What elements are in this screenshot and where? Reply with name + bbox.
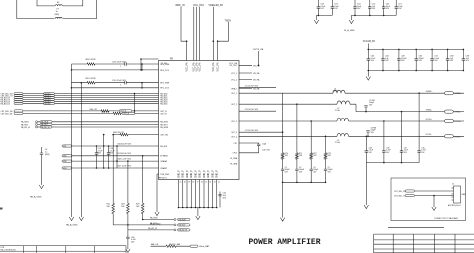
svg-text:MICRO_BAT: MICRO_BAT xyxy=(169,243,181,246)
svg-text:WRF_IN: WRF_IN xyxy=(175,4,184,7)
svg-text:C50 47uF 50V: C50 47uF 50V xyxy=(112,61,127,63)
svg-text:R60 OR: R60 OR xyxy=(90,109,98,111)
svg-text:VB_PA: VB_PA xyxy=(253,78,260,81)
svg-text:GPANA: GPANA xyxy=(160,160,167,163)
svg-text:PA_A_GND: PA_A_GND xyxy=(66,224,78,227)
svg-text:16: 16 xyxy=(201,182,203,184)
svg-text:GND_P: GND_P xyxy=(191,170,193,178)
svg-text:(NM): (NM) xyxy=(45,154,50,156)
svg-text:27nH: 27nH xyxy=(335,110,340,112)
svg-text:CNT_B: CNT_B xyxy=(123,113,130,115)
svg-text:PA_B10: PA_B10 xyxy=(160,145,167,148)
svg-text:VCC_PA: VCC_PA xyxy=(212,62,215,71)
svg-text:(NM): (NM) xyxy=(55,14,60,16)
svg-text:VCC_PA: VCC_PA xyxy=(186,62,189,71)
svg-text:GND_P: GND_P xyxy=(208,170,210,178)
svg-text:20: 20 xyxy=(184,182,186,184)
svg-text:VCC_PA: VCC_PA xyxy=(198,62,201,71)
svg-text:PA_RDT: PA_RDT xyxy=(160,123,168,126)
svg-text:21: 21 xyxy=(180,182,182,184)
svg-text:GSM1+: GSM1+ xyxy=(455,93,463,95)
svg-text:BYPASS: BYPASS xyxy=(160,155,168,158)
svg-text:R61 OR: R61 OR xyxy=(102,111,110,113)
svg-text:VB2: VB2 xyxy=(63,156,66,158)
svg-text:GND_P: GND_P xyxy=(187,170,189,178)
svg-text:CNT_BDL_RX: CNT_BDL_RX xyxy=(394,191,406,193)
svg-text:GND_P: GND_P xyxy=(178,170,180,178)
svg-text:OUT_5: OUT_5 xyxy=(231,136,237,138)
svg-text:VCC_2: VCC_2 xyxy=(231,79,237,81)
svg-text:R66 1R OR: R66 1R OR xyxy=(113,132,124,134)
svg-text:OUT_3: OUT_3 xyxy=(231,121,237,123)
svg-text:TPA_GND: TPA_GND xyxy=(160,173,169,176)
svg-text:DCS1-: DCS1- xyxy=(426,134,432,136)
svg-text:RF0_GSM: RF0_GSM xyxy=(160,64,169,66)
svg-text:RF1_DCS: RF1_DCS xyxy=(160,88,169,90)
svg-text:RF2173: RF2173 xyxy=(159,178,168,180)
svg-text:C66 A 2uF 50V: C66 A 2uF 50V xyxy=(117,142,132,145)
svg-text:VCC4M_PA: VCC4M_PA xyxy=(363,40,376,43)
svg-text:TXEN: TXEN xyxy=(225,19,232,22)
svg-text:CNT_B: CNT_B xyxy=(160,113,167,115)
svg-text:18: 18 xyxy=(192,182,194,184)
svg-text:PA_RDN: PA_RDN xyxy=(41,121,49,124)
svg-text:W_GNA: W_GNA xyxy=(230,157,238,160)
svg-text:VB1: VB1 xyxy=(63,146,66,148)
svg-text:PA: PA xyxy=(170,58,173,61)
svg-text:VRAMP: VRAMP xyxy=(160,167,167,170)
svg-text:CPL: CPL xyxy=(234,143,238,145)
svg-text:CNT_BDL_TX: CNT_BDL_TX xyxy=(394,196,406,198)
svg-text:R50 470R: R50 470R xyxy=(86,59,96,61)
svg-text:GND_P: GND_P xyxy=(204,170,206,178)
svg-text:R51 470R: R51 470R xyxy=(86,78,96,80)
svg-text:CNT_BDL_B1: CNT_BDL_B1 xyxy=(1,113,13,115)
svg-text:PA_RDT: PA_RDT xyxy=(150,222,158,225)
svg-text:VCC_PA3: VCC_PA3 xyxy=(193,4,204,7)
svg-text:PA_RDT: PA_RDT xyxy=(41,123,49,126)
svg-text:27nH: 27nH xyxy=(335,142,340,144)
svg-text:PA_RDN: PA_RDN xyxy=(160,121,168,124)
svg-text:PA_BD5: PA_BD5 xyxy=(160,103,167,106)
svg-text:OUT_4: OUT_4 xyxy=(231,132,237,134)
svg-text:VCC_PA: VCC_PA xyxy=(217,62,220,71)
svg-text:Vbatt_BAT: Vbatt_BAT xyxy=(199,245,210,248)
svg-text:GND_P: GND_P xyxy=(195,170,197,178)
svg-text:BAL OR: BAL OR xyxy=(151,243,159,246)
svg-text:PA_RDT: PA_RDT xyxy=(21,123,29,126)
svg-text:17: 17 xyxy=(197,182,199,184)
svg-text:C67 A 2uF 50V: C67 A 2uF 50V xyxy=(117,152,132,155)
svg-text:PA_BD_W: PA_BD_W xyxy=(21,126,30,129)
svg-text:CONNECTOR TO PA BOARD: CONNECTOR TO PA BOARD xyxy=(434,217,459,220)
svg-text:VB4: VB4 xyxy=(63,168,66,170)
svg-text:VB_PA: VB_PA xyxy=(253,72,260,75)
svg-text:VBB_1: VBB_1 xyxy=(231,88,237,90)
svg-text:RXTX_PA: RXTX_PA xyxy=(253,48,263,51)
svg-text:VCC_1: VCC_1 xyxy=(231,73,237,75)
svg-text:M_A_GND: M_A_GND xyxy=(344,29,355,32)
svg-text:PA_BDW: PA_BDW xyxy=(160,126,168,129)
svg-text:POWER AMPLIFIER: POWER AMPLIFIER xyxy=(249,238,321,247)
svg-text:VB_PA: VB_PA xyxy=(253,87,260,90)
svg-text:27nH: 27nH xyxy=(333,91,338,93)
svg-text:DCS1+: DCS1+ xyxy=(426,119,433,121)
svg-text:PA_BD_W: PA_BD_W xyxy=(179,229,188,232)
svg-text:GSM1-: GSM1- xyxy=(426,109,433,111)
svg-text:CPL2: CPL2 xyxy=(232,153,237,155)
svg-text:VCC_PA: VCC_PA xyxy=(193,62,196,71)
svg-text:C68 1.2uF 50V: C68 1.2uF 50V xyxy=(117,159,132,161)
svg-text:GND_P: GND_P xyxy=(200,170,202,178)
svg-text:GND_P: GND_P xyxy=(212,170,214,178)
svg-text:PA_RDT: PA_RDT xyxy=(179,224,187,227)
svg-text:PA_BD_W: PA_BD_W xyxy=(148,227,157,230)
svg-text:C52 47uF 50V: C52 47uF 50V xyxy=(245,109,259,111)
svg-text:PA_BD_W: PA_BD_W xyxy=(41,126,50,129)
svg-text:13: 13 xyxy=(214,182,216,184)
svg-text:VB_PA: VB_PA xyxy=(253,64,260,67)
svg-text:CNT_PA: CNT_PA xyxy=(160,134,168,137)
svg-text:ANT B16(10)+4: ANT B16(10)+4 xyxy=(448,204,461,207)
svg-text:15: 15 xyxy=(205,182,207,184)
svg-text:PA_RDN: PA_RDN xyxy=(21,121,29,124)
svg-text:C69 .22uF 25V: C69 .22uF 25V xyxy=(117,165,132,167)
svg-text:19: 19 xyxy=(188,182,190,184)
svg-text:GND_P: GND_P xyxy=(217,170,219,178)
svg-text:1: 1 xyxy=(120,85,121,87)
svg-text:VCC_PA: VCC_PA xyxy=(196,62,199,71)
svg-text:OUT_2: OUT_2 xyxy=(231,104,237,106)
svg-text:C53 47uF 50V: C53 47uF 50V xyxy=(245,130,259,132)
svg-text:C51 47uF 50V: C51 47uF 50V xyxy=(112,80,127,82)
svg-text:PA_A_GND: PA_A_GND xyxy=(30,196,42,199)
svg-text:DCS1+: DCS1+ xyxy=(455,121,462,123)
svg-text:VREG4M_PA: VREG4M_PA xyxy=(209,4,224,7)
svg-text:W_GNB: W_GNB xyxy=(230,164,238,166)
svg-text:PA_RDB: PA_RDB xyxy=(179,218,187,221)
svg-text:PA_BD4_B: PA_BD4_B xyxy=(1,103,11,106)
svg-text:C5A: C5A xyxy=(262,143,267,146)
svg-text:VB3: VB3 xyxy=(63,161,66,163)
svg-text:1: 1 xyxy=(120,66,121,68)
svg-text:GND_P: GND_P xyxy=(183,170,185,178)
svg-text:RF1_GSM: RF1_GSM xyxy=(160,83,169,85)
svg-text:RF0_DCS: RF0_DCS xyxy=(160,70,169,72)
svg-text:14: 14 xyxy=(209,182,211,184)
svg-text:12: 12 xyxy=(218,182,220,184)
svg-text:PA_CONTROL(W): PA_CONTROL(W) xyxy=(1,249,16,252)
svg-text:GSM1-: GSM1- xyxy=(455,112,462,114)
svg-text:DCS1-: DCS1- xyxy=(455,136,461,138)
svg-text:GSM1+: GSM1+ xyxy=(426,91,434,93)
svg-text:PA_RDB: PA_RDB xyxy=(150,217,158,220)
svg-text:RF_OUT: RF_OUT xyxy=(230,65,238,67)
svg-text:C51 47uF 50V: C51 47uF 50V xyxy=(245,85,259,87)
svg-text:OUT_1: OUT_1 xyxy=(231,93,237,95)
svg-text:CuF 25V: CuF 25V xyxy=(262,150,271,152)
